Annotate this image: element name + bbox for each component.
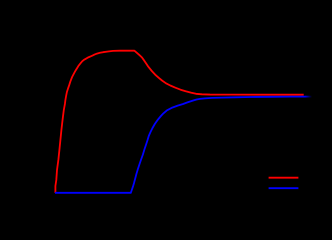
legend blue sample [269,187,299,189]
legend red sample [269,177,299,179]
red curve [55,51,303,193]
blue curve [55,97,305,193]
